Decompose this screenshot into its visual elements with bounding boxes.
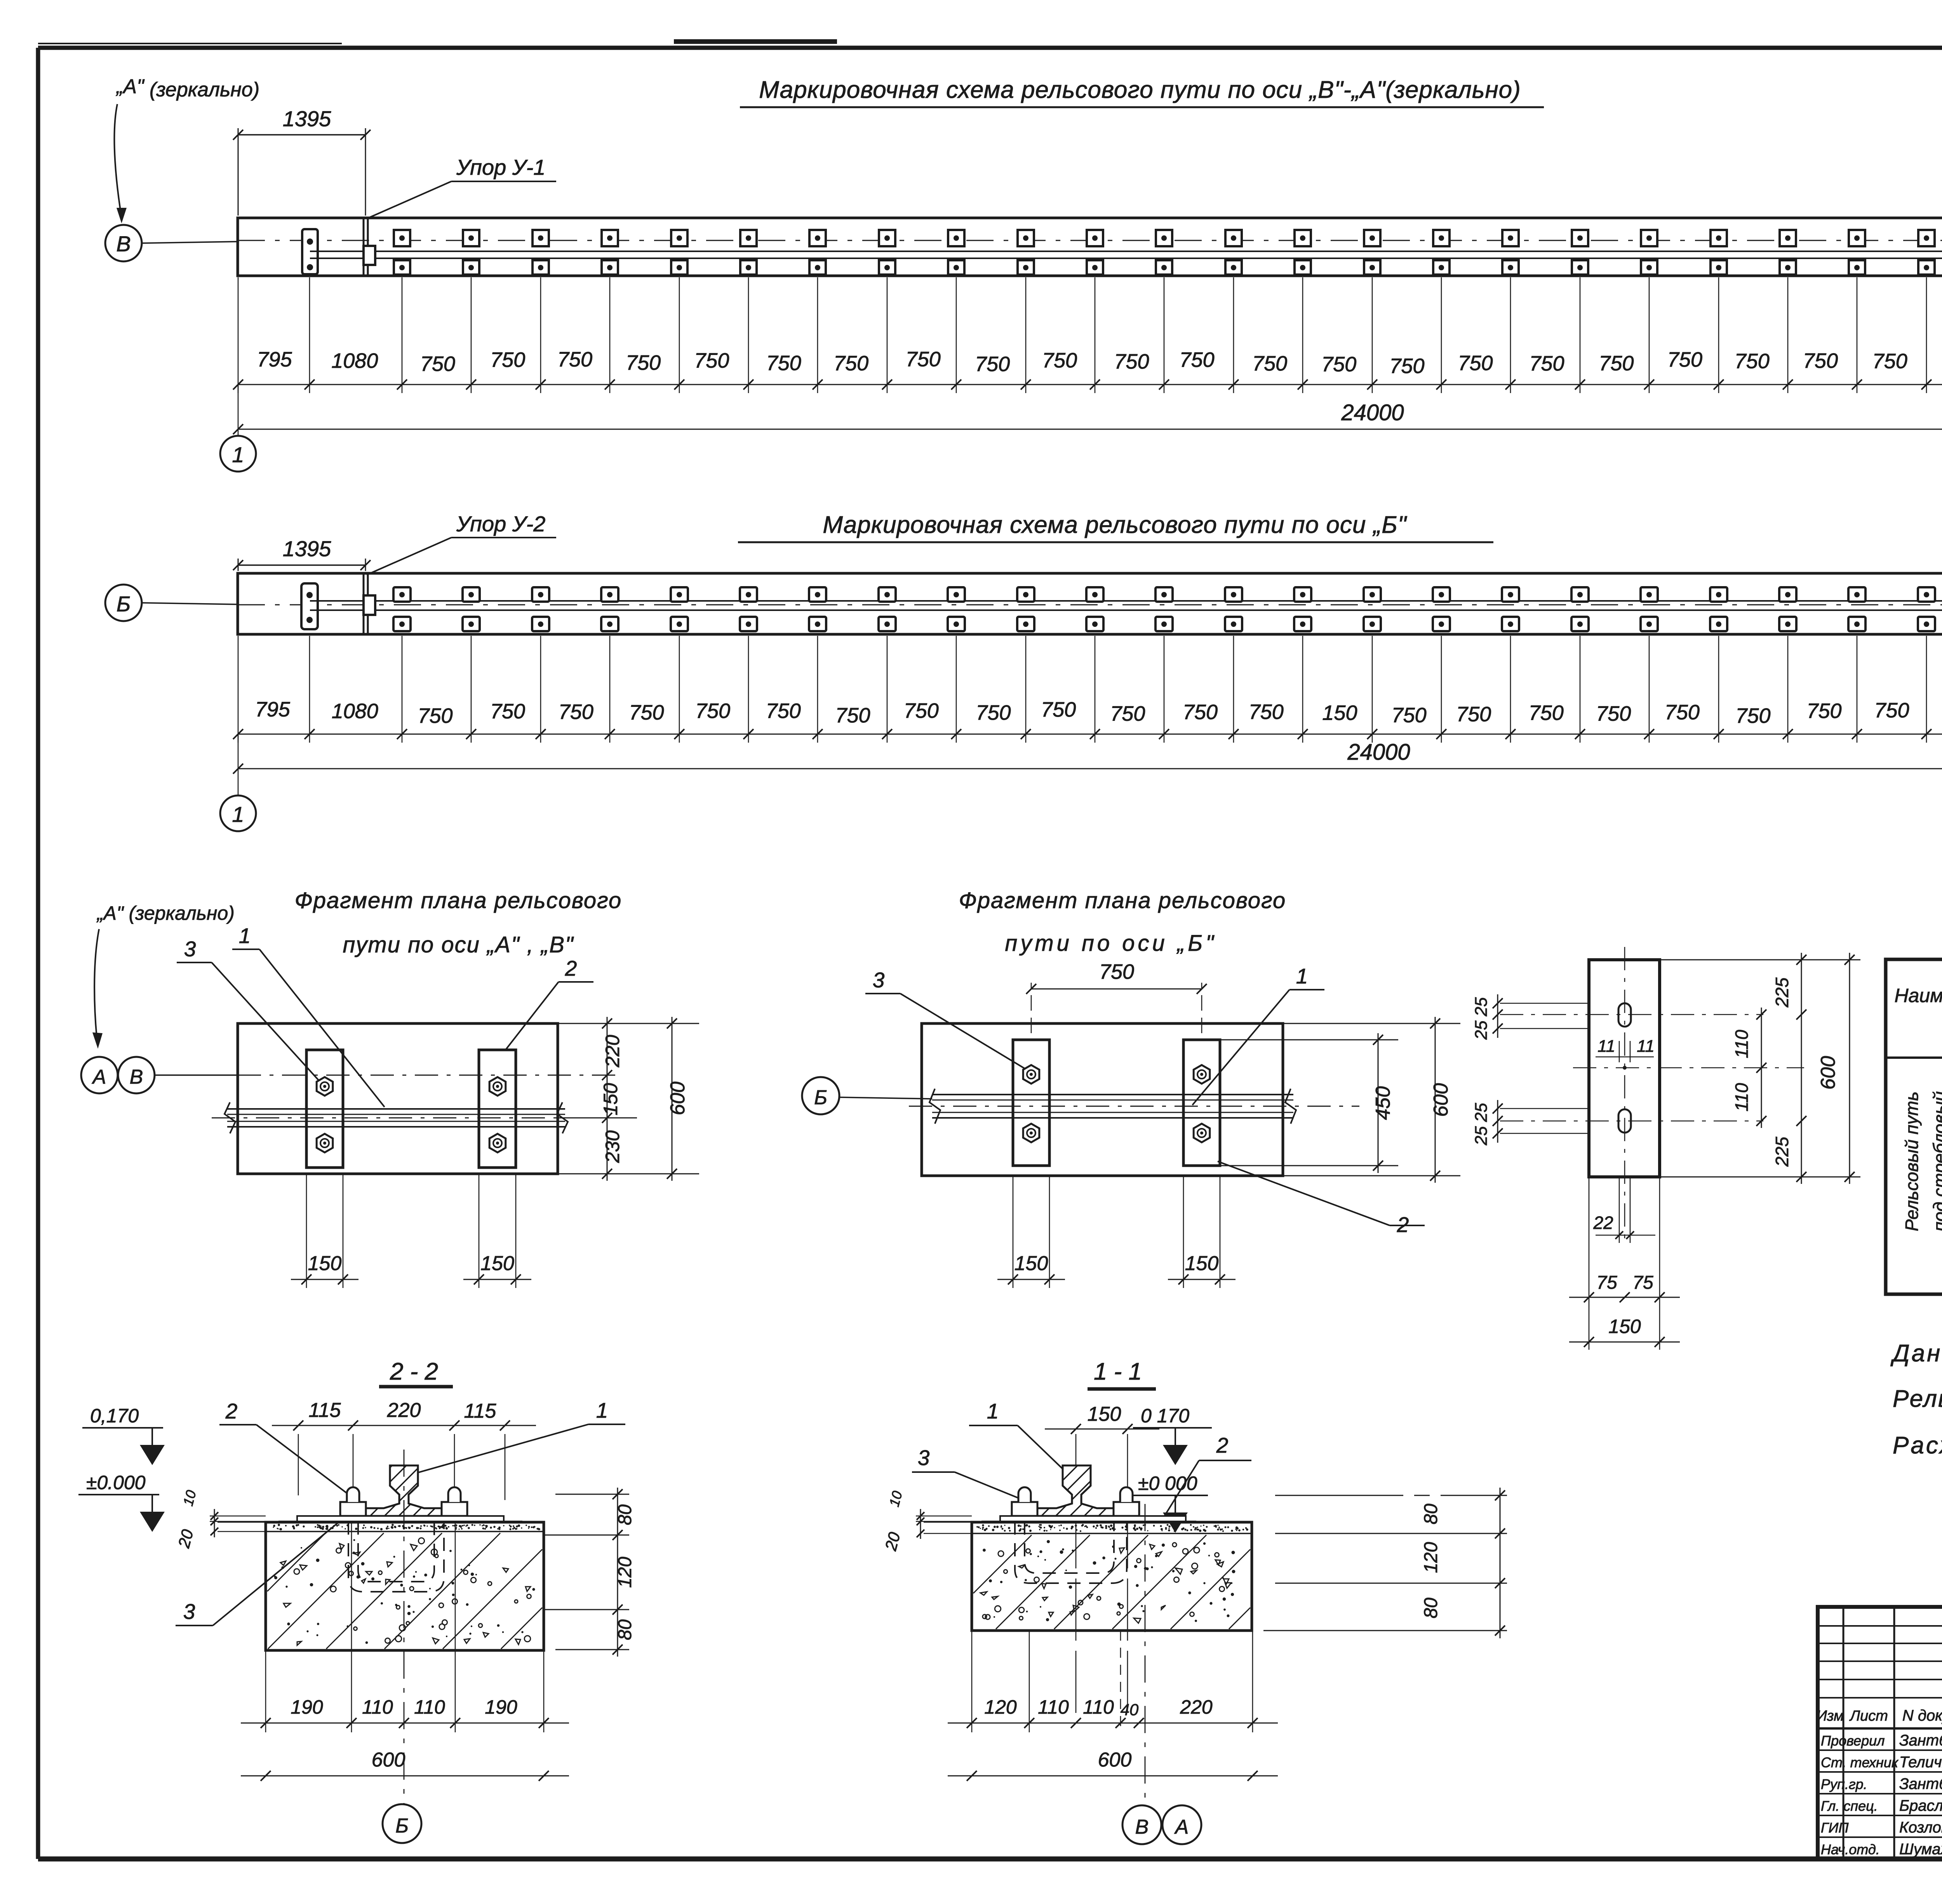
svg-text:2: 2 <box>1216 1433 1229 1457</box>
svg-text:750: 750 <box>1180 348 1215 372</box>
svg-text:ГИП: ГИП <box>1821 1820 1849 1836</box>
section 1-1 bolts <box>1012 1502 1037 1516</box>
plate detail right dims 225/225 <box>1801 953 1802 1184</box>
svg-text:450: 450 <box>1372 1086 1394 1120</box>
svg-text:750: 750 <box>418 704 452 727</box>
fragment 2 axis circle B <box>802 1077 839 1114</box>
svg-text:150: 150 <box>480 1252 514 1275</box>
svg-text:750: 750 <box>834 352 868 375</box>
svg-text:Маркировочная схема рельсо: Маркировочная схема рельсового пути по о… <box>823 512 1407 538</box>
svg-text:80: 80 <box>615 1619 635 1640</box>
svg-text:750: 750 <box>1099 960 1134 983</box>
joint double line scheme 2 <box>363 573 365 634</box>
svg-text:120: 120 <box>984 1696 1017 1718</box>
svg-text:110: 110 <box>1731 1083 1752 1112</box>
svg-text:600: 600 <box>1098 1749 1132 1771</box>
plate detail outline <box>1589 960 1660 1177</box>
svg-text:750: 750 <box>976 701 1011 724</box>
sleeper plates scheme 2 <box>393 587 411 631</box>
svg-text:Лист: Лист <box>1849 1708 1888 1724</box>
svg-text:75: 75 <box>1596 1272 1617 1293</box>
plate detail left dims 25/25 upper <box>1500 1003 1589 1004</box>
axis circle 1 scheme 2 <box>220 795 256 831</box>
svg-text:750: 750 <box>557 348 592 371</box>
svg-text:Данный лист комплектен с: Данный лист комплектен с листами КЖ-2 ; … <box>1890 1340 1942 1367</box>
svg-text:750: 750 <box>1599 352 1634 375</box>
svg-text:1: 1 <box>987 1399 999 1423</box>
svg-text:795: 795 <box>257 348 292 371</box>
svg-text:„А": „А" <box>116 75 145 98</box>
svg-text:190: 190 <box>291 1696 323 1718</box>
section 1-1 concrete slab <box>972 1522 1252 1631</box>
leader arrow to axis circle B <box>114 104 122 218</box>
svg-text:750: 750 <box>1114 350 1149 373</box>
svg-text:230: 230 <box>602 1130 623 1163</box>
svg-text:Проверил: Проверил <box>1821 1733 1885 1749</box>
svg-text:Изм: Изм <box>1817 1708 1844 1724</box>
svg-text:750: 750 <box>1665 701 1700 724</box>
svg-text:Маркировочная схема рельсово: Маркировочная схема рельсового пути по о… <box>759 77 1521 103</box>
dim 24000 scheme 2 <box>238 734 239 795</box>
svg-text:750: 750 <box>695 699 730 722</box>
svg-text:22: 22 <box>1593 1213 1613 1233</box>
section 1-1 left small dims 10/20 <box>916 1516 972 1517</box>
section 2-2 axis circle B(cyr) <box>383 1804 421 1843</box>
svg-text:750: 750 <box>1389 355 1424 378</box>
section 1-1 top dim 150 <box>1075 1434 1077 1723</box>
svg-text:110: 110 <box>362 1696 393 1718</box>
svg-text:Б: Б <box>117 592 131 616</box>
dim 1395 scheme 2 <box>238 559 239 571</box>
section 2-2 concrete slab <box>266 1522 544 1650</box>
svg-text:3: 3 <box>873 968 885 992</box>
joint double line (Upor U-1 left) <box>363 218 365 276</box>
svg-text:А: А <box>92 1066 106 1088</box>
svg-text:N документ: N документ <box>1902 1707 1942 1724</box>
plate detail left dims 25/25 lower <box>1500 1108 1589 1109</box>
axis circle 1 scheme 1 <box>220 436 256 472</box>
svg-text:750: 750 <box>1529 701 1564 725</box>
rail lines scheme 2 <box>310 600 1942 602</box>
svg-text:В: В <box>116 231 131 256</box>
svg-text:750: 750 <box>766 352 801 375</box>
section 2-2 right dims 80/120/80 <box>555 1494 629 1495</box>
svg-text:225: 225 <box>1772 977 1792 1008</box>
svg-text:80: 80 <box>615 1504 635 1525</box>
svg-text:1395: 1395 <box>283 536 331 561</box>
svg-text:под стребловый: под стребловый <box>1930 1091 1942 1232</box>
svg-text:750: 750 <box>1252 352 1287 375</box>
svg-text:750: 750 <box>1529 352 1564 375</box>
svg-text:750: 750 <box>1041 698 1076 721</box>
specification table frame <box>1886 959 1942 1294</box>
svg-text:Руп.гр.: Руп.гр. <box>1821 1776 1867 1792</box>
svg-text:750: 750 <box>906 348 941 371</box>
svg-text:„А" (зеркально): „А" (зеркально) <box>96 902 235 924</box>
svg-text:750: 750 <box>1392 703 1427 727</box>
svg-text:750: 750 <box>1183 701 1218 724</box>
svg-text:110: 110 <box>1083 1696 1114 1718</box>
signature table verticals <box>1843 1607 1845 1859</box>
svg-text:±0 000: ±0 000 <box>1138 1472 1197 1494</box>
axis circle B <box>105 225 142 261</box>
svg-text:150: 150 <box>1088 1403 1121 1425</box>
svg-text:150: 150 <box>1185 1252 1219 1275</box>
fragment 2 bottom dims 150/150 <box>1013 1176 1014 1288</box>
svg-text:24000: 24000 <box>1347 740 1410 765</box>
svg-text:750: 750 <box>629 701 664 724</box>
svg-text:750: 750 <box>1874 699 1909 722</box>
plate detail right dims 110/110 <box>1761 1008 1762 1128</box>
svg-text:115: 115 <box>464 1400 497 1422</box>
fragment 1 rail (plan) <box>227 1108 565 1110</box>
svg-text:110: 110 <box>414 1696 445 1718</box>
svg-text:Козловская: Козловская <box>1899 1819 1942 1836</box>
section 2-2 center line <box>404 1450 405 1803</box>
svg-text:120: 120 <box>1421 1542 1441 1573</box>
dim 1395 scheme 1 <box>238 128 239 216</box>
svg-text:В: В <box>130 1066 143 1088</box>
svg-text:1: 1 <box>596 1398 608 1422</box>
fragment 1 beam <box>238 1023 558 1174</box>
section 2-2 bottom dims 190/110/110/190 <box>265 1650 266 1732</box>
svg-text:600: 600 <box>1817 1056 1839 1090</box>
svg-text:40: 40 <box>1121 1700 1139 1719</box>
svg-text:750: 750 <box>1249 700 1284 724</box>
left anchor plate scheme 1 <box>302 229 318 274</box>
svg-text:110: 110 <box>1038 1696 1069 1718</box>
svg-text:Наименов.: Наименов. <box>1894 985 1942 1006</box>
svg-text:Браславский: Браславский <box>1899 1797 1942 1814</box>
plate detail slots <box>1618 1003 1631 1027</box>
svg-text:750: 750 <box>1042 349 1077 372</box>
section 2-2 dim 600 <box>241 1775 569 1777</box>
svg-text:600: 600 <box>372 1749 405 1771</box>
svg-text:Нач.отд.: Нач.отд. <box>1821 1841 1880 1857</box>
svg-text:2: 2 <box>565 956 577 980</box>
svg-text:600: 600 <box>1430 1083 1452 1117</box>
plate detail right dim 600 <box>1660 959 1860 961</box>
svg-text:750: 750 <box>1596 702 1631 726</box>
svg-text:795: 795 <box>255 698 291 721</box>
plate detail centerlines <box>1624 947 1625 1245</box>
section 2-2 pad plate <box>297 1516 504 1521</box>
svg-text:750: 750 <box>1321 353 1356 376</box>
svg-text:1 - 1: 1 - 1 <box>1094 1358 1142 1385</box>
svg-text:750: 750 <box>490 348 525 372</box>
axis dash-dot line scheme 1 <box>238 240 1942 241</box>
svg-text:1: 1 <box>232 802 244 827</box>
fragment 2 top dim 750 <box>1031 983 1032 1033</box>
svg-text:750: 750 <box>975 353 1010 376</box>
svg-text:750: 750 <box>1735 350 1770 373</box>
dim 24000 scheme 1 <box>238 385 239 436</box>
svg-text:3: 3 <box>918 1446 930 1470</box>
nut at joint scheme 2 <box>364 595 375 615</box>
svg-text:2 - 2: 2 - 2 <box>390 1358 438 1385</box>
fragment 2 nuts <box>1023 1065 1039 1084</box>
svg-text:Гл. спец.: Гл. спец. <box>1821 1798 1878 1814</box>
svg-text:150: 150 <box>308 1252 342 1275</box>
svg-text:750: 750 <box>559 700 593 724</box>
svg-text:120: 120 <box>615 1557 635 1588</box>
svg-text:Фрагмент плана рельсового: Фрагмент плана рельсового <box>959 888 1286 913</box>
svg-text:750: 750 <box>1456 703 1491 726</box>
svg-text:1080: 1080 <box>332 700 378 723</box>
svg-text:Теличко: Теличко <box>1899 1754 1942 1771</box>
fragment 1 plate 1 <box>306 1050 343 1168</box>
svg-text:750: 750 <box>835 704 870 727</box>
plate detail 11/11 slot width dim <box>1619 1041 1620 1062</box>
svg-text:Упор У-1: Упор У-1 <box>456 155 545 179</box>
svg-text:24000: 24000 <box>1341 400 1404 425</box>
svg-text:11: 11 <box>1637 1037 1655 1056</box>
svg-text:75: 75 <box>1632 1272 1653 1293</box>
svg-text:225: 225 <box>1772 1136 1792 1167</box>
svg-text:Расход стали на упоры с: Расход стали на упоры см. лист КЖ-30 <box>1893 1432 1942 1459</box>
svg-text:25: 25 <box>1472 997 1491 1016</box>
title block frame <box>1818 1607 1942 1859</box>
nut block at joint <box>364 246 375 265</box>
section 1-1 right dims 80/120/80 (long witness lines) <box>1275 1495 1507 1496</box>
section 2-2 left small dims 10/20 <box>210 1516 266 1517</box>
svg-text:Рельсовый путь: Рельсовый путь <box>1902 1091 1922 1231</box>
svg-text:3: 3 <box>184 937 196 961</box>
svg-text:2: 2 <box>225 1399 238 1423</box>
svg-text:750: 750 <box>1803 349 1838 372</box>
fragment 2 plate 1 <box>1013 1040 1049 1166</box>
svg-text:750: 750 <box>694 349 729 372</box>
svg-text:115: 115 <box>309 1399 341 1422</box>
svg-text:25: 25 <box>1472 1103 1491 1122</box>
left anchor plate scheme 2 <box>301 583 318 629</box>
svg-text:1080: 1080 <box>331 349 378 372</box>
fragment 1 right dims 220/150/230/600 <box>558 1023 699 1024</box>
axis circle B(cyr) scheme 2 <box>105 585 142 621</box>
svg-text:750: 750 <box>1806 700 1841 723</box>
svg-text:1: 1 <box>232 442 244 467</box>
svg-text:Шумахин: Шумахин <box>1899 1841 1942 1858</box>
svg-text:750: 750 <box>1110 702 1145 725</box>
svg-text:80: 80 <box>1421 1504 1441 1525</box>
svg-text:Зантберг: Зантберг <box>1899 1775 1942 1793</box>
axis line from circle B <box>142 242 238 243</box>
section 1-1 bottom dims 120/110/110/40/220 <box>971 1631 973 1732</box>
svg-text:150: 150 <box>1322 701 1357 725</box>
svg-text:11: 11 <box>1597 1037 1615 1056</box>
section 2-2 bolts <box>340 1502 366 1516</box>
svg-text:750: 750 <box>420 352 455 376</box>
svg-text:220: 220 <box>387 1399 421 1422</box>
svg-text:пути по оси „А" , „В": пути по оси „А" , „В" <box>343 932 574 957</box>
svg-text:750: 750 <box>1667 348 1702 371</box>
svg-text:220: 220 <box>1180 1696 1213 1718</box>
section 2-2 anchor loop dashed <box>348 1521 444 1592</box>
svg-text:3: 3 <box>183 1599 195 1624</box>
section 1-1 pad plate <box>1000 1516 1186 1521</box>
svg-text:750: 750 <box>490 700 525 723</box>
rail lines scheme 1 <box>310 251 1942 252</box>
fragment 2 right dims 450/600 <box>1220 1039 1398 1041</box>
svg-text:Б: Б <box>814 1086 827 1109</box>
svg-text:750: 750 <box>1872 350 1907 373</box>
svg-text:150: 150 <box>600 1083 621 1116</box>
sleeper plates scheme 1 <box>394 230 410 275</box>
fragment 1 bottom dims 150/150 <box>306 1174 307 1288</box>
fragment 2 plate 2 <box>1183 1040 1220 1166</box>
svg-text:150: 150 <box>1608 1316 1641 1337</box>
svg-text:750: 750 <box>1458 352 1493 375</box>
svg-text:150: 150 <box>1015 1252 1048 1275</box>
svg-text:25: 25 <box>1472 1020 1491 1040</box>
section 1-1 axis line <box>1145 1504 1146 1805</box>
svg-text:750: 750 <box>1735 704 1770 727</box>
fragment 2 rail (plan) <box>932 1094 1293 1095</box>
svg-text:750: 750 <box>766 700 801 723</box>
svg-text:Ст. техник: Ст. техник <box>1821 1754 1899 1770</box>
section 1-1 dim 600 <box>948 1775 1278 1777</box>
svg-text:Рельсы укладываются в в: Рельсы укладываются в виде плетей длиной… <box>1893 1385 1942 1412</box>
fragment 1 nuts <box>317 1077 333 1096</box>
fragment 1 axis circles A and B <box>81 1057 118 1093</box>
svg-text:190: 190 <box>485 1696 517 1718</box>
fragment 1 axis dash-dot through upper nuts <box>238 1075 621 1076</box>
svg-text:Упор У-2: Упор У-2 <box>456 512 545 536</box>
svg-text:пути по оси „Б": пути по оси „Б" <box>1005 931 1216 956</box>
svg-text:(зеркально): (зеркально) <box>150 78 259 101</box>
svg-text:Фрагмент плана рельсового: Фрагмент плана рельсового <box>295 888 622 913</box>
svg-text:Зантберг: Зантберг <box>1899 1732 1942 1749</box>
svg-text:80: 80 <box>1421 1598 1441 1619</box>
svg-text:600: 600 <box>666 1082 689 1116</box>
svg-text:±0.000: ±0.000 <box>86 1472 146 1493</box>
svg-text:750: 750 <box>904 699 939 722</box>
svg-text:В: В <box>1135 1816 1149 1838</box>
section 1-1 rail <box>1037 1465 1116 1516</box>
svg-text:Б: Б <box>395 1815 409 1837</box>
section 2-2 top dims 115/220/115 <box>298 1434 299 1495</box>
fragment 1 plate 2 <box>479 1050 516 1168</box>
svg-text:1: 1 <box>1296 964 1308 988</box>
section 2-2 rail <box>364 1465 444 1516</box>
signature table rows <box>1818 1625 1942 1627</box>
rail beam band scheme 1 <box>238 218 1942 276</box>
svg-text:А: А <box>1174 1816 1189 1838</box>
svg-text:750: 750 <box>626 351 661 374</box>
svg-text:0,170: 0,170 <box>90 1405 139 1427</box>
svg-text:25: 25 <box>1472 1126 1491 1145</box>
svg-text:1: 1 <box>239 924 251 948</box>
svg-text:0 170: 0 170 <box>1141 1405 1189 1427</box>
sheet border frame <box>38 46 1942 50</box>
fragment 2 beam <box>922 1023 1283 1176</box>
plate detail bottom dims 22, 75/75, 150 <box>1619 1177 1620 1243</box>
axis dash-dot scheme 2 <box>238 604 1942 606</box>
svg-text:220: 220 <box>602 1035 623 1068</box>
rail beam band scheme 2 <box>238 573 1942 634</box>
svg-text:1395: 1395 <box>283 106 331 131</box>
section 1-1 anchor loop dashed <box>1015 1521 1127 1583</box>
svg-text:110: 110 <box>1731 1030 1752 1058</box>
section 1-1 axis circles V A <box>1122 1805 1161 1844</box>
